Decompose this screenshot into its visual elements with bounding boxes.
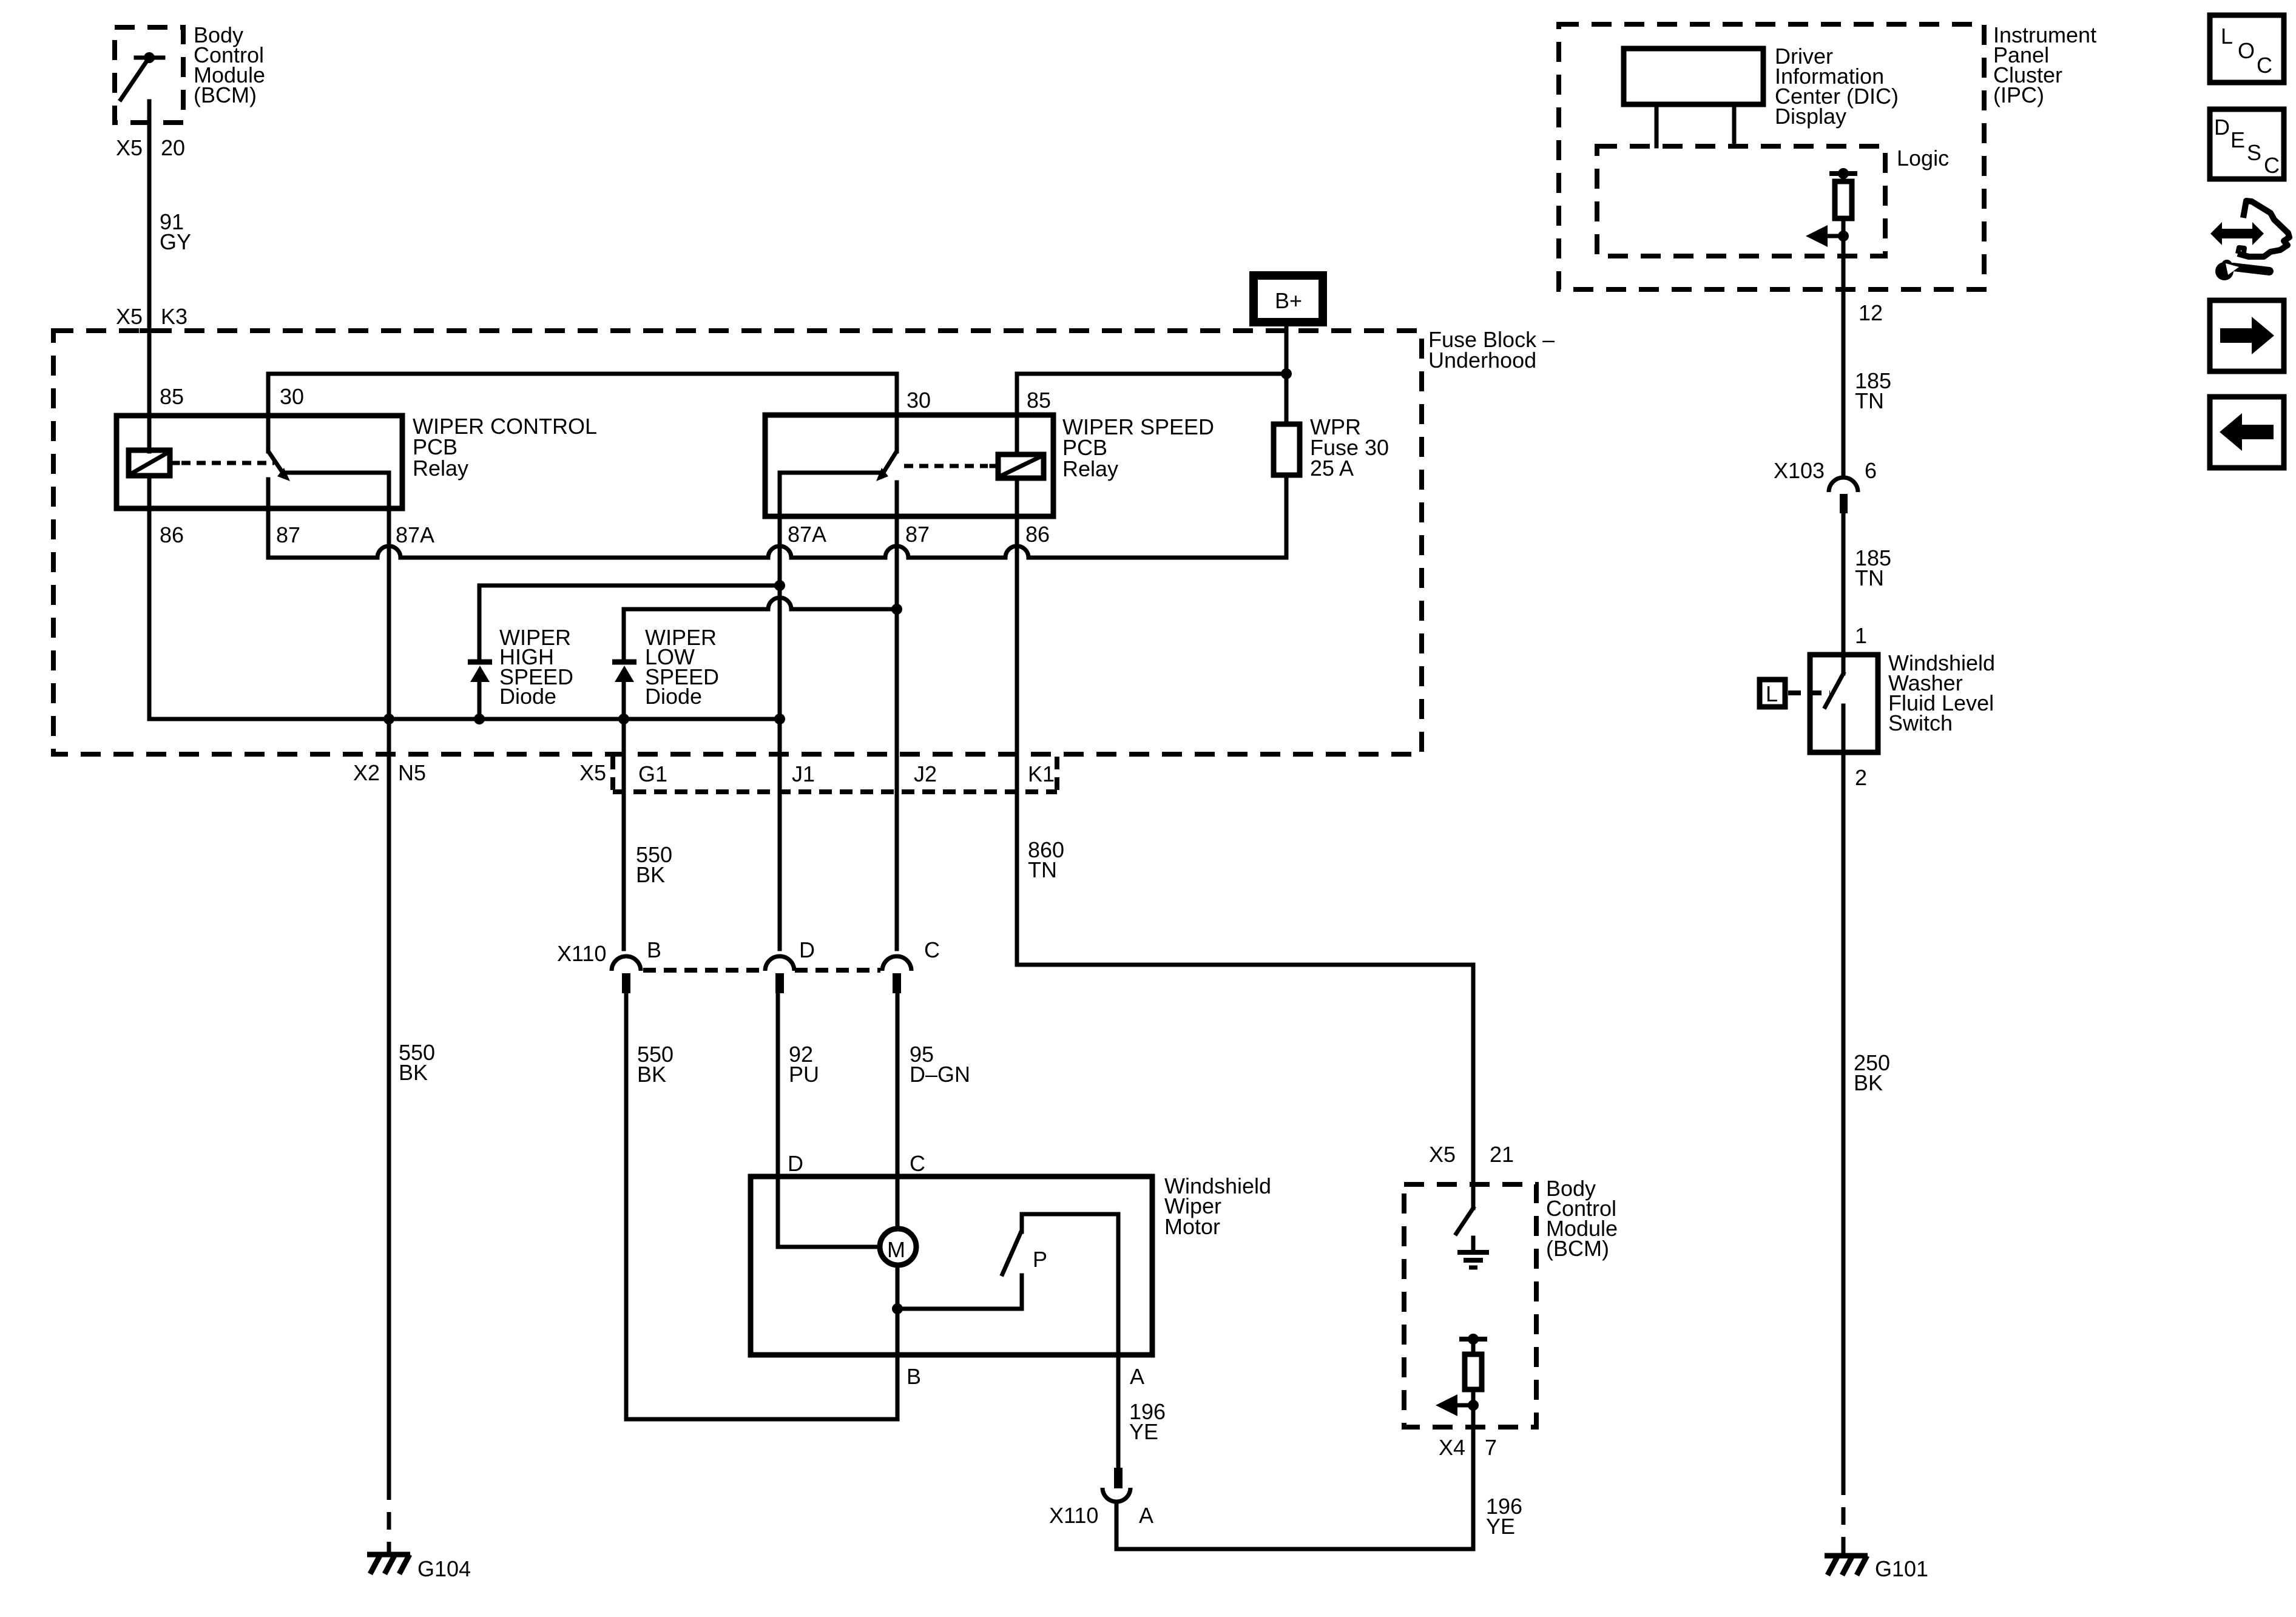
svg-text:J1: J1 [792,761,815,786]
svg-text:TN: TN [1855,388,1884,413]
icon: hand with double arrow and wrench [2210,201,2289,280]
label: wire 91 GY [160,209,191,254]
diode: WIPER LOW SPEED Diode [612,662,636,719]
svg-text:Diode: Diode [499,684,556,709]
svg-text:O: O [2238,38,2255,63]
wire: 185 TN from X103 down to washer switch pin 1 [1842,513,1846,673]
fuse WPR Fuse 30 25 A [1274,424,1300,475]
wire: motor bottom to junction [896,1268,900,1309]
svg-text:B+: B+ [1275,288,1302,313]
label: wire 550 BK (G1 segment) [636,842,672,887]
svg-text:C: C [2264,153,2280,178]
wire: B+ down to fuse [1285,322,1289,424]
svg-text:Display: Display [1775,104,1846,129]
svg-text:G1: G1 [638,761,667,786]
wire: fuse bottom down to 87 rail [1285,475,1289,558]
label: X5 | 20 [116,135,185,160]
svg-text:X5: X5 [116,304,143,329]
label: wire 92 PU [789,1042,819,1087]
switch inside BCM (wiper request input) [1456,1184,1473,1234]
svg-text:J2: J2 [914,761,937,786]
svg-text:21: 21 [1490,1142,1514,1167]
label: wire 196 YE (motor A segment) [1129,1399,1166,1444]
svg-text:C: C [910,1151,925,1176]
icon: DESC box [2210,109,2284,179]
park switch P inside motor [897,1214,1118,1309]
wire: 87 rail from relay1 pin 87 to fuse, with hops over 87A/J-wires [268,546,1286,558]
svg-text:Motor: Motor [1164,1214,1220,1239]
relay 1 pin 87A wire down to junction with 86 rail [387,473,391,719]
svg-text:2: 2 [1855,765,1867,790]
label: Instrument Panel Cluster (IPC) [1993,22,2096,107]
svg-text:X5: X5 [116,135,143,160]
svg-text:X2: X2 [353,760,380,785]
motor M symbol [880,1229,916,1265]
svg-text:D: D [788,1151,803,1176]
wire: D pin elbow to motor [778,1245,877,1249]
label: X5 | K3 [116,304,187,329]
icon: right arrow box [2210,300,2284,371]
svg-text:G101: G101 [1875,1556,1928,1581]
label: Fuse Block - Underhood [1428,327,1555,373]
wire: circuit 91 GY from BCM X5 pin 20 down to fuse block relay coil [147,101,152,451]
wire: motor pin A down through box to X110 A [1116,1214,1121,1468]
svg-text:K1: K1 [1028,761,1055,786]
svg-text:A: A [1130,1364,1144,1389]
svg-text:BK: BK [636,862,665,887]
label: Driver Information Center (DIC) Display [1775,44,1899,129]
label: WPR Fuse 30 25 A [1310,414,1389,481]
labels: X2 | N5 and X5 | G1 J1 J2 K1 [353,760,1055,786]
svg-text:B: B [647,937,661,962]
module box: Fuse Block - Underhood, dashed [140,328,160,333]
wire: 250 BK from washer switch pin 2 down to G101 [1842,752,1846,1477]
relay 1 pin labels 85 / 30 (top) [160,384,304,409]
resistor sensing network inside Logic [1829,168,1857,236]
svg-text:Relay: Relay [413,456,468,481]
label: wire 250 BK [1854,1050,1890,1095]
svg-text:Diode: Diode [645,684,702,709]
ground G101 [1825,1477,1868,1575]
relay 2 coil [991,454,1044,478]
svg-text:C: C [2257,53,2272,78]
svg-text:BK: BK [399,1060,428,1085]
arrow tap inside Logic [1806,225,1849,247]
connector X110 terminal A (pin above, cup below) [1102,1468,1130,1502]
relay 2 pin 87 wire down (becomes J2 circuit 95 D-GN) [895,482,899,949]
svg-text:Switch: Switch [1888,711,1953,735]
wire: X2 N5 circuit 550 BK down to G104 [387,719,391,1482]
wire: 550 BK from X110 B down to motor B loop [624,993,629,1419]
svg-text:TN: TN [1855,565,1884,590]
svg-text:(IPC): (IPC) [1993,83,2044,107]
svg-text:12: 12 [1859,300,1883,325]
node: junction of B+ feed, 85 rail and fuse [1281,368,1292,379]
label: wire 196 YE (X4 segment) [1486,1494,1522,1539]
relay 2 pin 86 wire down (becomes K1 circuit 860 TN) [1015,478,1019,965]
svg-text:87A: 87A [396,522,434,547]
svg-text:(BCM): (BCM) [194,83,257,107]
labels: X110 | A [1049,1503,1153,1528]
svg-text:D: D [799,937,815,962]
svg-text:PU: PU [789,1062,819,1087]
relay K1: WIPER CONTROL PCB Relay box [116,416,402,508]
relay 1 pin 86 wire (from coil bottom down) [147,476,152,719]
label: wire 550 BK (N5 segment) [399,1040,435,1085]
battery feed symbol B+ [1254,275,1323,322]
connector X5 dashed outline below fuse block [613,757,1057,792]
svg-text:D: D [2214,115,2230,140]
relay 1 pin 30 wire from top rail into box [266,374,271,451]
connector X103 terminal 6 [1829,478,1858,513]
arrow tap inside BCM [1436,1394,1479,1416]
svg-text:X110: X110 [1049,1503,1098,1528]
wire: 86 rail from relay1 pin 86 to relay2 pin 87A with junctions [149,714,785,724]
svg-text:(BCM): (BCM) [1546,1236,1609,1261]
diode: WIPER HIGH SPEED Diode [468,662,492,719]
labels: X5 | 21 [1429,1142,1514,1167]
wire: 92 PU from X110 D down into motor (pin D) [776,993,780,1247]
label: Windshield Wiper Motor [1164,1173,1271,1239]
svg-text:L: L [2221,24,2233,49]
relay 1 87A contact line [286,471,389,475]
svg-text:25 A: 25 A [1310,456,1354,481]
svg-text:N5: N5 [398,760,426,785]
relay 2 coil-to-armature dashed link [904,464,988,468]
wire: from X110 A down and right to BCM X4-7 [1116,1427,1473,1549]
labels: motor pins D and C [788,1151,925,1176]
svg-text:86: 86 [160,522,184,547]
module box: Body Control Module (BCM) right, dashed [1404,1184,1536,1427]
component box: Windshield Washer Fluid Level Switch [1810,655,1878,752]
connector X110 terminal B [612,956,641,993]
wire: WIPER LOW SPEED diode top rail to relay2 87 (hops over 87A wire) [624,598,902,661]
relay 1 coil [129,450,178,476]
resistor sensing network inside BCM [1459,1334,1487,1427]
svg-text:Logic: Logic [1897,146,1949,170]
svg-text:X110: X110 [557,941,606,966]
wire: 95 D-GN from X110 C down into motor (pin C) [896,993,900,1226]
svg-text:B: B [907,1364,921,1389]
svg-text:E: E [2230,127,2245,152]
relay 2 pin 87A wire down (becomes J1 circuit 92 PU) [778,473,782,949]
wire: rail from relay2 pin 85 to B+ / WPR fuse [1017,372,1286,376]
switch blade inside washer switch [1825,673,1843,752]
wire: WIPER HIGH SPEED diode top rail to relay2 87A [479,580,785,661]
svg-text:7: 7 [1485,1435,1497,1460]
relay 1 armature blade (switch) [269,452,290,481]
svg-text:87: 87 [276,522,300,547]
label: Body Control Module (BCM) [194,22,265,107]
svg-text:87A: 87A [788,522,826,547]
relay 2 pin 30 wire from top rail into box [895,374,899,451]
svg-text:A: A [1139,1503,1153,1528]
label: wire 95 D-GN [910,1042,970,1087]
switch inside BCM (X5-20 output driver) [121,52,163,100]
svg-text:G104: G104 [417,1556,471,1581]
svg-text:85: 85 [160,384,184,409]
svg-text:GY: GY [160,229,191,254]
svg-text:BK: BK [637,1062,666,1087]
component box: Windshield Wiper Motor [751,1176,1152,1355]
label: Body Control Module (BCM) right [1546,1176,1618,1261]
svg-text:X4: X4 [1439,1435,1465,1460]
labels: X110 B D C [557,937,940,966]
wire: IPC pin 12 down to X103 [1842,236,1846,478]
relay 1 pin 87 wire (down to fuse rail) [266,479,271,558]
labels: motor pins B and A [907,1364,1144,1389]
connector X110 terminal D [765,956,794,993]
label: wire 550 BK (X110 B segment) [637,1042,674,1087]
wire: 860 TN from K1 down, right and down to BCM X5-21 [1017,965,1473,1184]
relay 2 pin labels 87A / 87 / 86 (bottom) [788,522,1050,547]
label: wire 185 TN (upper) [1855,368,1891,413]
ground symbol inside BCM [1457,1238,1489,1268]
label: WIPER SPEED PCB Relay [1062,414,1214,481]
label: wire 185 TN (lower) [1855,545,1891,590]
svg-text:X103: X103 [1774,458,1825,483]
svg-text:85: 85 [1027,388,1051,413]
wire: B loop bottom horizontal [626,1417,897,1422]
labels: X103 | 6 [1774,458,1877,483]
svg-text:S: S [2247,140,2261,165]
level sensor L symbol [1760,680,1830,707]
icon: left arrow box [2210,397,2284,468]
svg-text:Underhood: Underhood [1428,348,1536,373]
svg-text:P: P [1033,1247,1047,1272]
svg-text:86: 86 [1025,522,1050,547]
wire: top rail pin 30 relay1 to pin 30 relay2 [268,372,897,376]
connector X110 terminal C [882,956,911,993]
svg-text:K3: K3 [161,304,187,329]
svg-text:BK: BK [1854,1070,1883,1095]
dashed connector line X110 B-D [643,968,763,973]
svg-text:X5: X5 [579,760,606,785]
svg-text:30: 30 [907,388,931,413]
svg-text:L: L [1766,681,1778,706]
svg-text:M: M [887,1237,905,1262]
svg-text:6: 6 [1865,458,1877,483]
wire: X5 G1 circuit 550 BK down to X110 B [622,719,626,949]
svg-text:YE: YE [1129,1419,1158,1444]
svg-text:C: C [924,937,940,962]
svg-text:YE: YE [1486,1514,1515,1539]
ground G104 [367,1482,410,1574]
label: X4 | 7 [1439,1435,1497,1460]
relay 2 87A contact line [780,471,880,475]
label: WIPER CONTROL PCB Relay [413,414,597,481]
relay 2 pin 85 wire from B+ rail into coil [1015,374,1019,454]
svg-text:X5: X5 [1429,1142,1456,1167]
svg-text:TN: TN [1028,857,1057,882]
svg-text:1: 1 [1855,623,1867,648]
node: motor B junction [892,1303,903,1314]
svg-text:20: 20 [161,135,185,160]
relay 2 pin labels 30 / 85 (top) [907,388,1051,413]
relay K2: WIPER SPEED PCB Relay box [765,415,1053,516]
wire: motor pin B down out of box [896,1309,900,1419]
label: WIPER HIGH SPEED Diode [499,625,573,709]
svg-text:D–GN: D–GN [910,1062,970,1087]
component: Driver Information Center (DIC) Display [1624,49,1763,146]
relay 1 pin labels 86 / 87 / 87A (bottom) [160,522,434,547]
svg-text:87: 87 [905,522,930,547]
dashed connector line X110 D-C [795,968,880,973]
icon: LOC box [2210,15,2284,83]
relay 1 coil-to-armature dashed link [181,461,274,465]
svg-text:Relay: Relay [1062,456,1118,481]
label: Windshield Washer Fluid Level Switch [1888,650,1995,735]
module box: Instrument Panel Cluster (IPC), dashed [1559,24,1984,289]
label: WIPER LOW SPEED Diode [645,625,719,709]
module box: Body Control Module (BCM) top-left, dashed [115,27,183,123]
module box: Logic, dashed [1597,146,1885,256]
relay 2 armature blade (switch) [876,452,896,481]
svg-text:30: 30 [280,384,304,409]
label: wire 860 TN (K1 segment) [1028,837,1064,882]
